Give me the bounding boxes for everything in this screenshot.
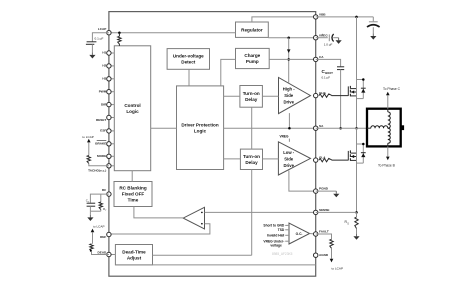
svg-text:Logic: Logic <box>126 109 139 114</box>
svg-text:Logic: Logic <box>194 128 207 133</box>
svg-text:0.1 µF: 0.1 µF <box>322 75 331 79</box>
label to LCAP (dead pull-up) <box>91 224 105 244</box>
wire comparator ref input to REF pin <box>109 224 210 234</box>
ground below VBB capacitor <box>370 33 376 39</box>
pin DIR <box>101 102 111 107</box>
svg-text:Charge: Charge <box>244 53 260 58</box>
svg-text:Turn-on: Turn-on <box>243 91 260 96</box>
svg-text:Side: Side <box>284 156 294 161</box>
wire Dead-Time Adjust to delay chain <box>153 254 252 256</box>
capacitor 1uF at VREG (polarized) <box>316 33 339 46</box>
svg-text:to LCAP: to LCAP <box>93 224 105 228</box>
wire Control Logic to RC Blanking <box>131 171 133 182</box>
svg-text:MODE: MODE <box>97 154 106 158</box>
wire VREG internal supply drop <box>287 38 291 83</box>
svg-text:S: S <box>347 222 349 225</box>
pin ESF <box>100 129 111 133</box>
label Short to GND input <box>263 224 289 228</box>
svg-text:VBB: VBB <box>319 13 326 17</box>
block Turn-on Delay (low side) <box>240 149 262 169</box>
svg-text:TSD: TSD <box>278 228 285 232</box>
capacitor 0.1uF at LCAP <box>86 33 109 53</box>
svg-text:to LCAP: to LCAP <box>82 135 94 139</box>
svg-text:T: T <box>105 210 107 212</box>
watermark figure id <box>272 252 293 256</box>
wire Under-voltage Detect to Driver Protection Logic <box>188 69 190 86</box>
wire dead-time chain vertical <box>251 107 253 255</box>
wire Turn-on Delay high to High-Side Drive <box>262 95 278 97</box>
ground at VREG capacitor <box>336 38 342 44</box>
svg-text:1.0 µF: 1.0 µF <box>324 43 333 47</box>
junction CBOOT at SA line <box>339 127 342 130</box>
wire High-Side Drive source reference <box>288 113 290 128</box>
svg-text:To Phase C: To Phase C <box>383 87 401 91</box>
motor winding phase B (bottom) <box>388 128 390 146</box>
wire Regulator to VREG pin <box>268 37 315 39</box>
junction VBB rail at FET drain <box>355 16 358 19</box>
svg-text:RESET: RESET <box>96 118 106 122</box>
wire Charge Pump to CA pin <box>269 58 316 60</box>
junction VREG node <box>287 36 290 39</box>
wire Dead-Time ground reference to right edge <box>115 264 315 266</box>
resistor pull-up on LCAP rail <box>118 33 121 46</box>
junction LCAP rail <box>118 31 121 34</box>
motor winding phase A (left) <box>367 126 388 128</box>
svg-text:Delay: Delay <box>245 160 258 165</box>
svg-text:LCAP: LCAP <box>98 27 106 31</box>
wire LCAP rail to Regulator <box>109 32 236 34</box>
svg-text:High -: High - <box>283 87 295 92</box>
wire DIR stub <box>109 104 114 106</box>
block Control Logic <box>114 46 150 171</box>
wire BRAKE stub <box>109 143 114 145</box>
wire H3 stub <box>109 78 114 80</box>
svg-text:O.C.: O.C. <box>296 232 303 236</box>
motor shaft stub <box>401 125 404 130</box>
wire to TACHO pin <box>89 163 109 165</box>
wire Charge Pump to Driver Protection Logic <box>221 59 236 86</box>
label TSD input <box>278 228 289 232</box>
block Charge Pump <box>236 48 270 68</box>
pin AGND <box>314 253 329 257</box>
wire VBB rail <box>316 16 374 18</box>
svg-text:Control: Control <box>124 103 140 108</box>
wire Low-Side Drive reference to PGND <box>289 171 316 192</box>
wire O.C. output to FAULT pin <box>310 233 316 236</box>
wire ESF stub <box>109 130 114 132</box>
svg-text:H2: H2 <box>102 64 106 68</box>
pin VBB <box>314 13 327 20</box>
resistor gate GLA <box>319 158 332 161</box>
svg-text:Time: Time <box>128 198 139 203</box>
resistor gate GHA <box>319 94 332 97</box>
comparator O.C. fault <box>289 223 310 244</box>
wire DPL to Turn-on Delay low <box>224 158 241 160</box>
svg-text:FAULT: FAULT <box>319 230 329 234</box>
label Invalid Hall input <box>267 234 289 238</box>
wire DEAD stub <box>109 254 116 256</box>
svg-text:+: + <box>322 33 324 37</box>
svg-text:Adjust: Adjust <box>127 255 142 260</box>
svg-text:To Phase B: To Phase B <box>378 164 396 168</box>
pin VREG <box>314 33 329 40</box>
resistor RS sense <box>345 212 359 233</box>
svg-text:Side: Side <box>284 93 294 98</box>
svg-text:H1: H1 <box>102 51 106 55</box>
block Dead-Time Adjust <box>115 245 152 265</box>
wire Control Logic to Driver Protection Logic <box>151 127 177 129</box>
pin RESET <box>96 115 111 122</box>
transistor Q-high (N-MOSFET) <box>332 78 366 98</box>
pin LCAP <box>98 27 111 35</box>
ground below RS <box>353 234 359 240</box>
pin H3 <box>102 77 111 82</box>
pin PWM <box>99 89 111 94</box>
label VREG Under-voltage input <box>263 239 289 247</box>
pin SENSE <box>314 208 330 215</box>
wire comparator input to SENSE <box>205 211 316 213</box>
svg-text:Pump: Pump <box>246 59 259 64</box>
wire Q-low drain from SA <box>356 128 358 212</box>
label To Phase B <box>378 146 396 167</box>
junction VREG supply at charge-pump wire <box>287 58 290 61</box>
pin PGND <box>314 187 329 194</box>
svg-text:to LCAP: to LCAP <box>332 266 344 270</box>
svg-text:Driver Protection: Driver Protection <box>181 122 218 127</box>
svg-text:VREG: VREG <box>279 135 289 139</box>
ground RC network <box>87 215 93 221</box>
amp U-high High-Side Drive <box>279 78 311 114</box>
ground below LCAP capacitor <box>89 52 95 58</box>
pin MODE <box>97 154 111 159</box>
wire SA to motor <box>316 127 367 129</box>
wire PWM stub <box>109 91 114 93</box>
wire MODE stub <box>109 155 114 157</box>
block Under-voltage Detect <box>167 49 209 70</box>
pin TACHO <box>88 164 111 173</box>
wire RC pin network <box>90 194 109 203</box>
svg-text:SENSE: SENSE <box>319 208 330 212</box>
svg-text:Drive: Drive <box>283 163 294 168</box>
amp current-sense comparator <box>183 207 204 229</box>
pin REF <box>100 232 111 239</box>
pin CA <box>314 55 325 62</box>
svg-text:PWM: PWM <box>99 89 107 93</box>
svg-text:8985_AF23K5: 8985_AF23K5 <box>272 252 293 256</box>
svg-text:Dead-Time: Dead-Time <box>122 249 146 254</box>
block Driver Protection Logic <box>177 86 224 170</box>
wire Q-high drain <box>356 17 358 128</box>
wire Regulator to VBB pin <box>252 17 316 22</box>
wire DPL to SA line <box>224 127 316 129</box>
junction high-side source on SA line <box>288 127 291 130</box>
pin GLA <box>314 156 327 163</box>
svg-text:REF: REF <box>100 235 106 239</box>
label To Phase C <box>383 87 401 109</box>
wire sense node to SENSE pin <box>316 211 357 213</box>
wire DPL to Turn-on Delay high <box>224 95 240 97</box>
wire RC network bottom <box>90 211 100 215</box>
label to LCAP (tacho pull-up) <box>82 135 94 156</box>
svg-text:Delay: Delay <box>245 97 258 102</box>
capacitor bulk VBB (polarized) <box>367 17 380 34</box>
wire H2 stub <box>109 65 114 67</box>
junction dead resistor <box>90 250 92 252</box>
amp U-low Low-Side Drive <box>278 142 310 175</box>
svg-text:RC: RC <box>102 188 107 192</box>
wire H1 stub <box>109 52 114 54</box>
resistor FAULT pull-up <box>316 234 343 270</box>
svg-text:Detect: Detect <box>181 60 196 65</box>
svg-text:H3: H3 <box>102 77 106 81</box>
motor housing box <box>367 109 401 147</box>
wire to DEAD pin <box>92 251 109 254</box>
svg-text:0.1 µF: 0.1 µF <box>95 37 104 41</box>
block Regulator <box>236 22 269 37</box>
block RC Blanking Fixed OFF Time <box>114 182 152 207</box>
svg-text:Invalid Hall: Invalid Hall <box>267 234 284 238</box>
ground at PGND <box>316 191 340 197</box>
pin RC <box>102 188 111 196</box>
svg-text:Regulator: Regulator <box>241 27 263 32</box>
capacitor CT <box>86 199 95 212</box>
svg-text:Under-voltage: Under-voltage <box>173 54 204 59</box>
pin BRAKE <box>95 141 111 146</box>
wire RC Blanking to comparator output <box>134 207 183 218</box>
svg-text:PGND: PGND <box>319 187 329 191</box>
svg-text:SA: SA <box>319 124 324 128</box>
svg-text:TACHO(o.c.): TACHO(o.c.) <box>88 169 106 173</box>
junction sense node <box>355 211 358 214</box>
svg-text:BRAKE: BRAKE <box>95 142 106 146</box>
svg-text:voltage: voltage <box>270 244 282 248</box>
resistor RT <box>99 194 107 212</box>
pin H2 <box>102 64 111 69</box>
wire TACHO stub <box>109 165 114 167</box>
svg-text:AGND: AGND <box>319 253 329 257</box>
svg-text:DEAD: DEAD <box>98 250 108 254</box>
block Turn-on Delay (high side) <box>240 86 263 108</box>
svg-text:DIR: DIR <box>101 102 107 106</box>
IC boundary box <box>109 12 316 277</box>
junction SA node <box>355 127 358 130</box>
resistor tacho pull-up <box>87 156 90 164</box>
svg-text:Low -: Low - <box>283 150 295 155</box>
svg-text:CA: CA <box>319 55 324 59</box>
pin H1 <box>102 51 111 56</box>
wire RESET stub <box>109 117 114 119</box>
svg-text:BOOT: BOOT <box>325 71 333 75</box>
svg-text:Drive: Drive <box>283 99 294 104</box>
pin FAULT <box>314 230 329 237</box>
resistor dead-time pull-up <box>90 244 93 251</box>
transistor Q-low (N-MOSFET) <box>332 143 366 163</box>
svg-text:Fixed OFF: Fixed OFF <box>122 192 145 197</box>
pin SA <box>314 124 325 131</box>
svg-text:ESF: ESF <box>100 129 106 133</box>
label VREG (low-side supply) <box>279 135 289 142</box>
capacitor CBOOT <box>316 59 345 128</box>
svg-text:Turn-on: Turn-on <box>243 154 260 159</box>
pin GHA <box>314 91 327 98</box>
svg-text:RC Blanking: RC Blanking <box>119 186 147 191</box>
wire Turn-on Delay low to Low-Side Drive <box>263 158 279 160</box>
pin DEAD <box>98 250 112 256</box>
motor winding phase C (top) <box>388 109 390 129</box>
